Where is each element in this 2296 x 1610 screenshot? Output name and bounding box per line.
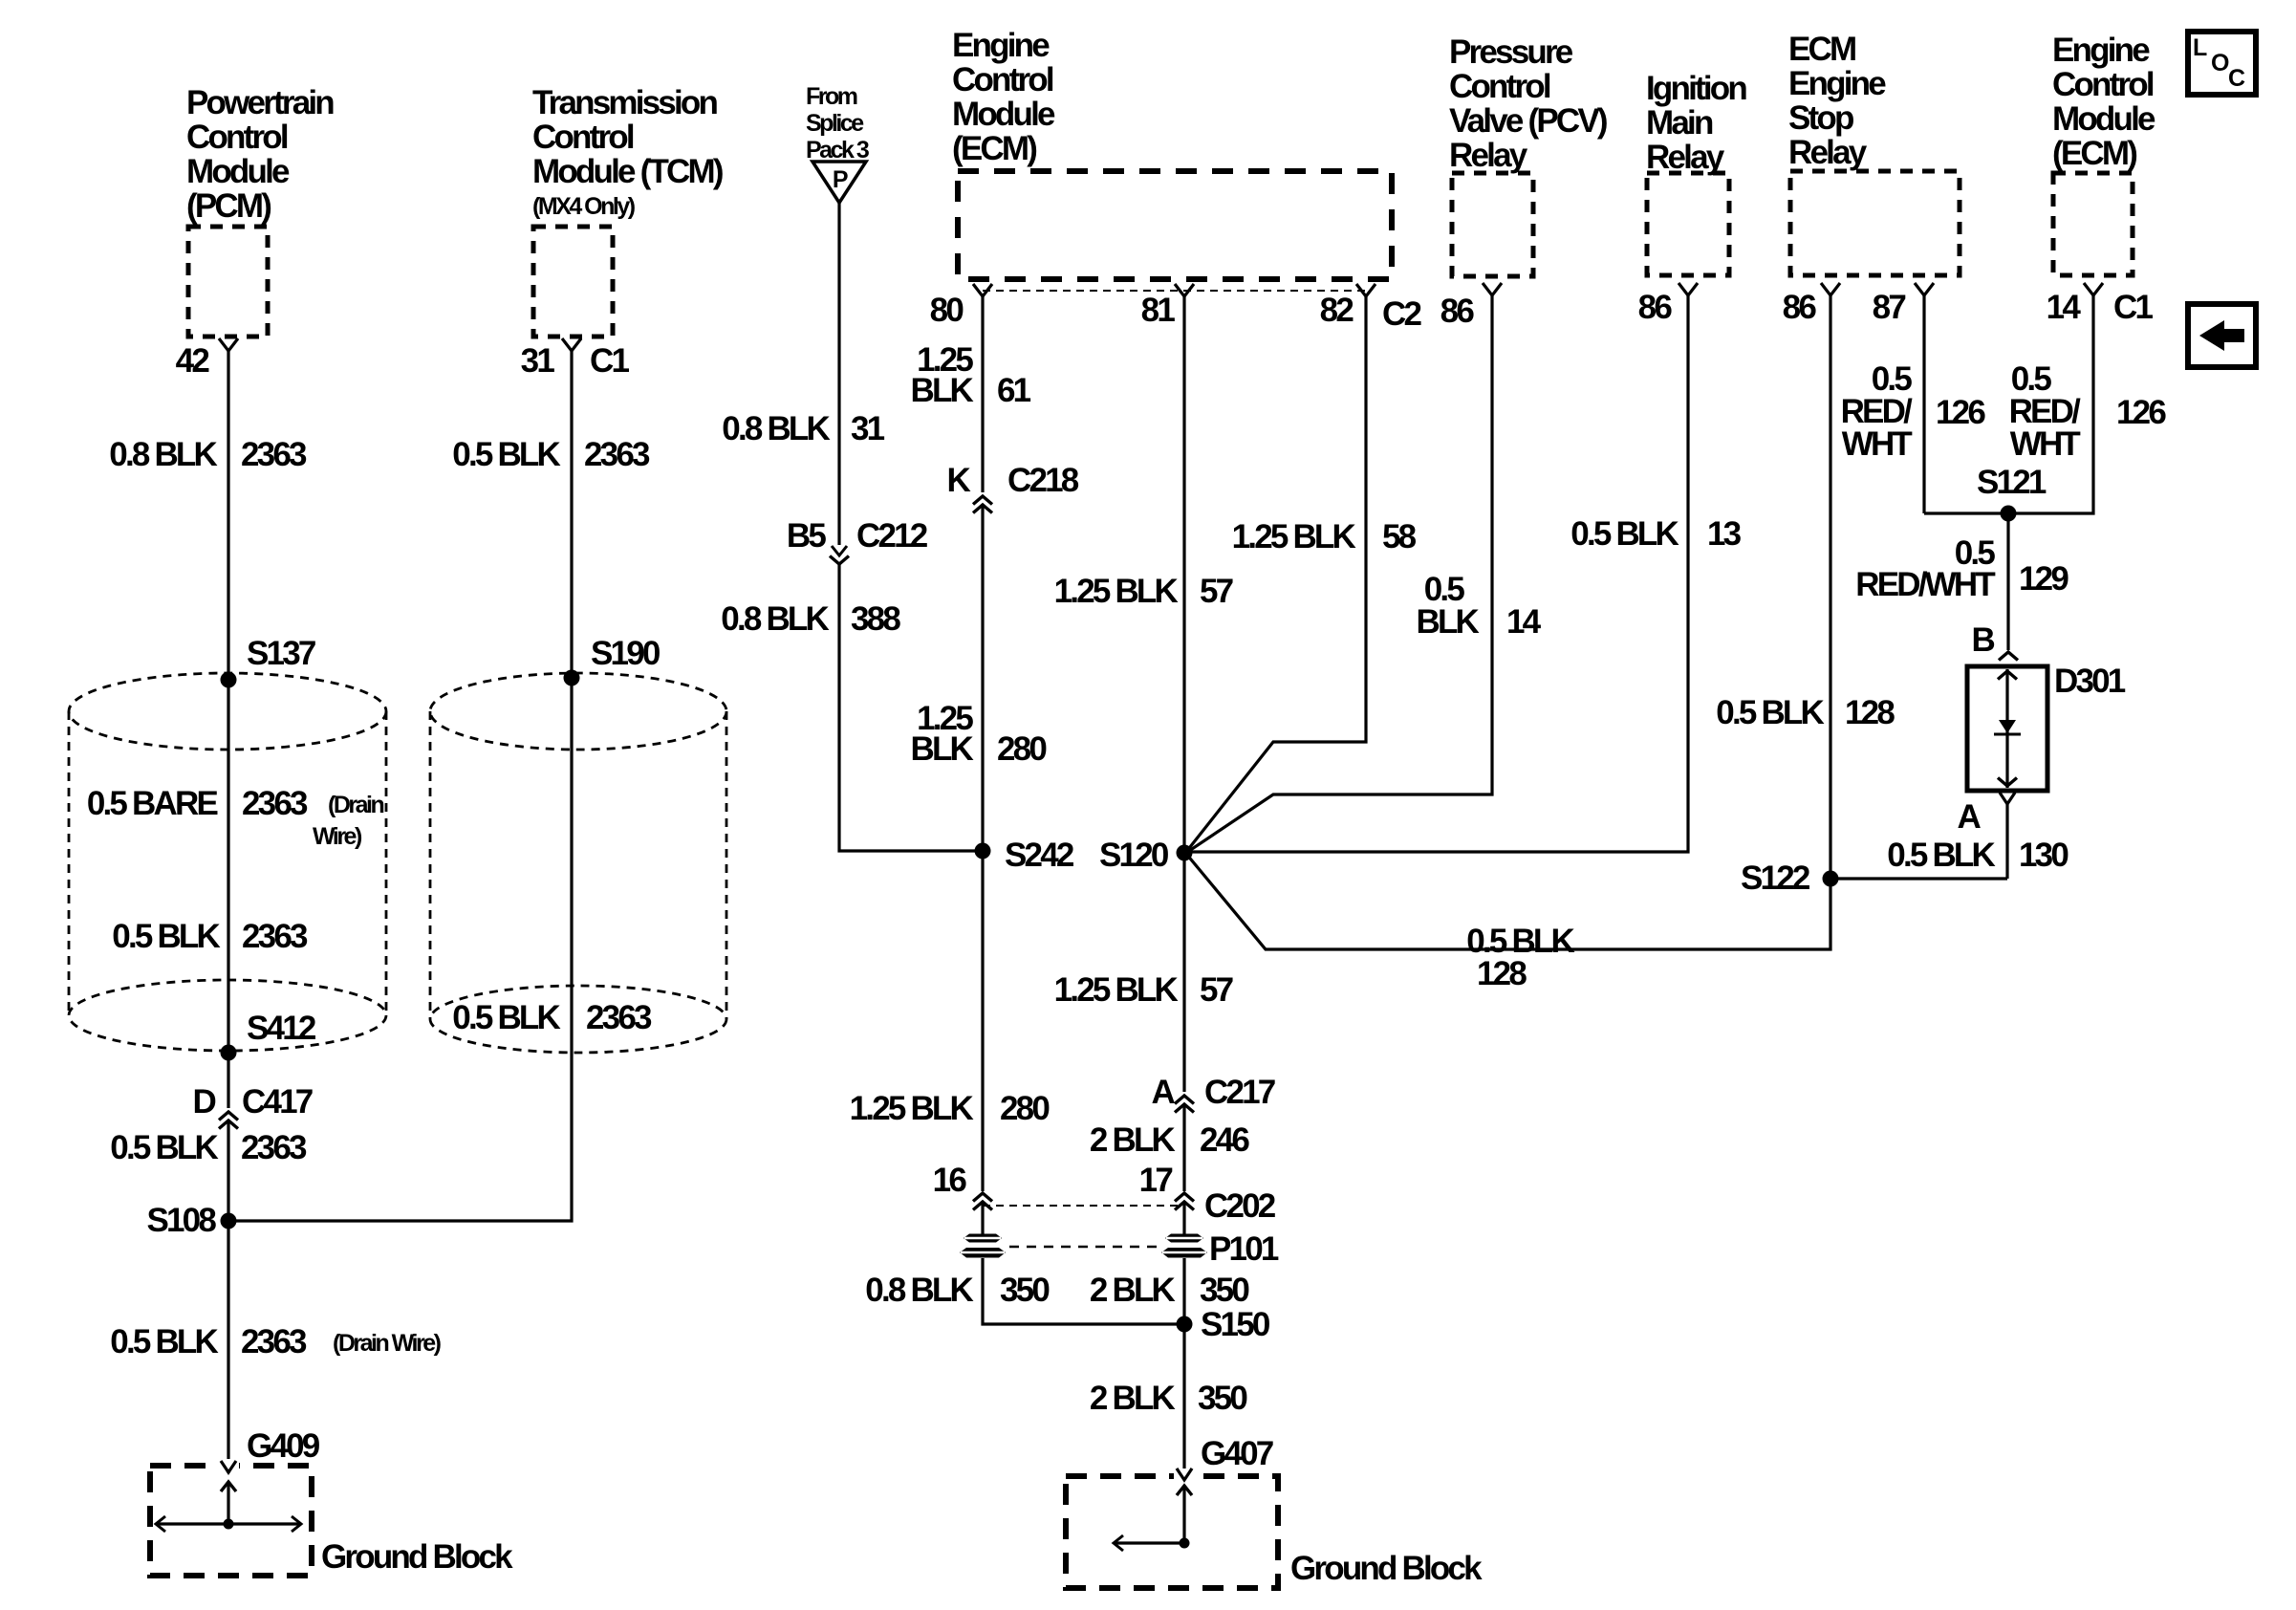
svg-text:(Drain: (Drain [328,792,383,818]
svg-text:0.5 BLK: 0.5 BLK [452,436,560,473]
svg-text:126: 126 [1936,394,1985,431]
svg-text:S108: S108 [146,1202,216,1239]
svg-text:Control: Control [186,119,288,156]
svg-text:1.25 BLK: 1.25 BLK [1054,971,1179,1009]
svg-text:Ignition: Ignition [1646,70,1746,107]
svg-text:(PCM): (PCM) [186,187,271,225]
svg-text:2363: 2363 [241,436,307,473]
svg-text:Ground Block: Ground Block [1290,1550,1483,1587]
svg-text:D301: D301 [2054,663,2126,700]
svg-text:Control: Control [952,61,1053,98]
svg-text:BLK: BLK [910,372,973,409]
svg-text:1.25 BLK: 1.25 BLK [1232,518,1356,555]
svg-text:80: 80 [930,292,964,329]
svg-text:Main: Main [1646,104,1713,141]
svg-text:2363: 2363 [586,999,652,1036]
svg-text:0.8 BLK: 0.8 BLK [722,410,830,447]
svg-text:Engine: Engine [1788,65,1886,102]
svg-text:S121: S121 [1977,464,2047,501]
svg-text:Wire): Wire) [313,823,362,850]
svg-text:42: 42 [176,342,210,380]
svg-text:B: B [1972,621,1995,659]
svg-text:0.5 BLK: 0.5 BLK [112,918,220,955]
svg-text:128: 128 [1845,694,1895,731]
svg-text:RED/WHT: RED/WHT [1855,566,1995,603]
svg-text:2363: 2363 [241,1323,307,1360]
svg-text:Splice: Splice [806,110,864,137]
svg-text:Control: Control [1449,68,1550,105]
svg-text:Engine: Engine [2052,32,2150,69]
svg-text:14: 14 [2047,289,2082,326]
svg-text:Stop: Stop [1788,99,1853,137]
svg-text:From: From [806,83,857,110]
svg-text:128: 128 [1477,955,1527,992]
svg-text:S137: S137 [247,635,315,672]
svg-text:2 BLK: 2 BLK [1090,1121,1176,1159]
svg-text:Module: Module [186,153,290,190]
svg-text:ECM: ECM [1788,31,1855,68]
svg-text:0.5 BLK: 0.5 BLK [1716,694,1824,731]
svg-text:Relay: Relay [1646,139,1725,176]
svg-text:350: 350 [1200,1272,1249,1309]
svg-text:C2: C2 [1382,295,1421,333]
svg-text:C417: C417 [242,1083,313,1120]
svg-text:0.5 BLK: 0.5 BLK [1887,837,1995,874]
svg-text:BLK: BLK [910,730,973,768]
svg-text:1.25 BLK: 1.25 BLK [850,1090,974,1127]
svg-text:0.5 BLK: 0.5 BLK [452,999,560,1036]
svg-text:S150: S150 [1201,1306,1270,1343]
svg-text:130: 130 [2019,837,2069,874]
svg-text:58: 58 [1382,518,1417,555]
svg-text:C: C [2228,65,2245,92]
svg-text:126: 126 [2116,394,2166,431]
svg-text:57: 57 [1200,971,1233,1009]
svg-text:Powertrain: Powertrain [186,84,334,121]
svg-text:0.8 BLK: 0.8 BLK [721,600,829,638]
svg-text:246: 246 [1200,1121,1249,1159]
svg-text:S412: S412 [247,1010,316,1047]
svg-text:BLK: BLK [1416,603,1479,641]
svg-text:2363: 2363 [584,436,650,473]
svg-text:S190: S190 [591,635,661,672]
svg-text:Module (TCM): Module (TCM) [532,153,723,190]
svg-text:Pack 3: Pack 3 [806,137,869,163]
svg-text:D: D [193,1083,216,1120]
svg-text:G409: G409 [247,1427,320,1465]
svg-text:388: 388 [851,600,900,638]
svg-text:K: K [947,462,971,499]
svg-text:(ECM): (ECM) [952,130,1036,167]
svg-text:86: 86 [1783,289,1817,326]
svg-text:14: 14 [1506,603,1542,641]
svg-text:0.8 BLK: 0.8 BLK [865,1272,973,1309]
svg-text:Control: Control [532,119,634,156]
svg-text:Control: Control [2052,66,2154,103]
svg-text:C212: C212 [856,517,928,555]
svg-text:13: 13 [1707,515,1742,553]
svg-text:C217: C217 [1204,1074,1275,1111]
svg-text:0.5 BLK: 0.5 BLK [110,1323,218,1360]
svg-text:O: O [2211,50,2229,76]
svg-text:61: 61 [997,372,1031,409]
svg-text:2 BLK: 2 BLK [1090,1272,1176,1309]
svg-text:Relay: Relay [1449,137,1528,174]
svg-text:L: L [2193,34,2207,61]
svg-text:16: 16 [933,1162,967,1199]
svg-text:S120: S120 [1099,837,1169,874]
svg-text:82: 82 [1320,292,1354,329]
svg-text:2 BLK: 2 BLK [1090,1380,1176,1417]
svg-text:Relay: Relay [1788,134,1868,171]
svg-text:C218: C218 [1007,462,1079,499]
svg-text:Module: Module [2052,100,2155,138]
svg-text:280: 280 [997,730,1047,768]
svg-text:WHT: WHT [1842,425,1913,463]
svg-text:350: 350 [1000,1272,1050,1309]
svg-text:(Drain Wire): (Drain Wire) [333,1330,442,1357]
svg-text:0.5 BLK: 0.5 BLK [1570,515,1679,553]
svg-text:G407: G407 [1201,1435,1273,1472]
svg-text:Pressure: Pressure [1449,33,1573,71]
svg-text:A: A [1958,798,1982,836]
svg-text:C1: C1 [590,342,629,380]
svg-text:31: 31 [521,342,555,380]
svg-text:2363: 2363 [242,918,308,955]
svg-text:86: 86 [1638,289,1673,326]
svg-text:0.5 BARE: 0.5 BARE [87,785,218,822]
svg-text:81: 81 [1141,292,1176,329]
svg-text:Transmission: Transmission [532,84,717,121]
svg-text:WHT: WHT [2010,425,2081,463]
svg-text:31: 31 [851,410,885,447]
svg-text:17: 17 [1139,1162,1173,1199]
svg-text:0.8 BLK: 0.8 BLK [109,436,217,473]
svg-text:Engine: Engine [952,27,1050,64]
svg-text:P101: P101 [1209,1230,1279,1268]
svg-text:280: 280 [1000,1090,1050,1127]
svg-text:129: 129 [2019,560,2069,598]
svg-text:2363: 2363 [241,1129,307,1166]
svg-text:B5: B5 [787,517,826,555]
svg-text:2363: 2363 [242,785,308,822]
svg-text:0.5 BLK: 0.5 BLK [110,1129,218,1166]
svg-text:Module: Module [952,96,1055,133]
svg-text:(MX4 Only): (MX4 Only) [532,193,636,220]
svg-text:S242: S242 [1005,837,1074,874]
svg-text:87: 87 [1873,289,1906,326]
svg-text:C202: C202 [1204,1187,1276,1225]
svg-text:1.25 BLK: 1.25 BLK [1054,573,1179,610]
svg-text:P: P [833,166,848,193]
svg-text:Valve (PCV): Valve (PCV) [1449,102,1607,140]
svg-text:Ground Block: Ground Block [321,1538,513,1576]
svg-text:(ECM): (ECM) [2052,135,2136,172]
svg-text:A: A [1152,1074,1176,1111]
svg-text:S122: S122 [1741,859,1810,897]
svg-text:350: 350 [1198,1380,1247,1417]
svg-text:86: 86 [1440,293,1475,330]
svg-text:57: 57 [1200,573,1233,610]
svg-text:C1: C1 [2113,289,2153,326]
